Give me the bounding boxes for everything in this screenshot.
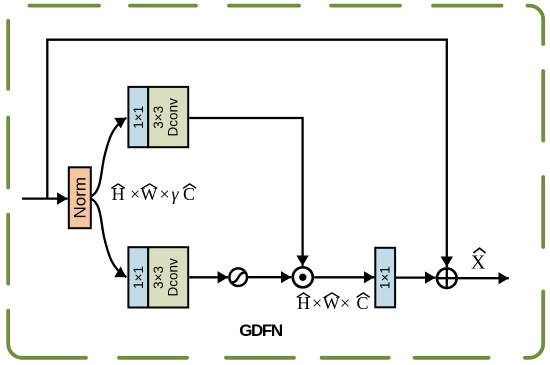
dashed frame: top edge — [30, 4, 502, 8]
conv block 1x1 output — [375, 248, 395, 307]
svg-text:×: × — [340, 293, 350, 313]
node label X hat — [471, 248, 486, 273]
sum node — [436, 267, 458, 289]
svg-text:1×1: 1×1 — [378, 266, 393, 289]
svg-text:Norm: Norm — [70, 177, 89, 219]
wire curve to bottom branch — [91, 199, 127, 278]
node label H x W x gamma C — [111, 184, 196, 204]
wire skip connection — [47, 40, 447, 267]
svg-text:1×1: 1×1 — [131, 106, 146, 129]
wire bottom branch to gelu — [189, 276, 228, 278]
dot-product node — [293, 267, 313, 287]
svg-text:X: X — [471, 251, 486, 273]
dashed frame: left edge — [6, 21, 10, 284]
svg-text:3×3: 3×3 — [151, 106, 166, 129]
svg-text:GDFN: GDFN — [239, 321, 283, 340]
dashed frame: bottom-right corner — [525, 292, 543, 358]
svg-text:γ: γ — [171, 184, 179, 204]
conv block bottom 1x1 + 3x3 dconv — [128, 247, 188, 307]
norm block — [69, 167, 91, 228]
wire top branch to dot-product — [189, 118, 302, 266]
conv block top 1x1 + 3x3 dconv — [128, 87, 188, 147]
dashed frame: right edge — [541, 71, 545, 247]
dashed frame: bottom edge — [21, 356, 489, 360]
svg-text:Dconv: Dconv — [166, 258, 181, 297]
gelu activation node — [229, 268, 247, 286]
svg-text:1×1: 1×1 — [131, 266, 146, 289]
dashed frame: top-right corner — [528, 6, 544, 44]
wire input — [22, 197, 68, 199]
svg-text:Dconv: Dconv — [166, 98, 181, 137]
svg-text:×: × — [160, 184, 170, 204]
wire curve to top branch — [91, 118, 127, 197]
svg-text:3×3: 3×3 — [151, 266, 166, 289]
dashed frame: bottom-left corner — [8, 311, 22, 358]
svg-text:×: × — [130, 184, 140, 204]
wire gelu to dot-product — [248, 276, 291, 278]
wire 1x1 to sum — [395, 276, 435, 278]
node label H x W x C — [297, 293, 370, 313]
svg-text:×: × — [312, 293, 322, 313]
wire dot-product to 1x1 — [314, 276, 374, 278]
wire output — [458, 277, 509, 279]
